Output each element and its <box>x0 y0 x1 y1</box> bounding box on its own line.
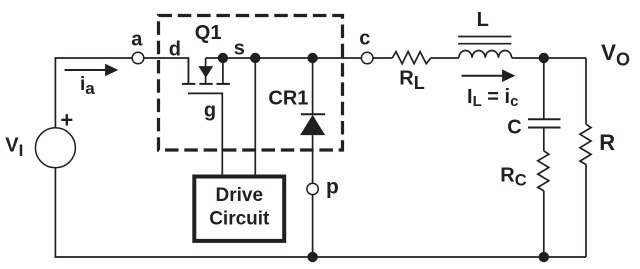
svg-text:CR1: CR1 <box>268 88 308 110</box>
svg-text:RL: RL <box>399 68 424 94</box>
svg-text:VI: VI <box>5 135 23 161</box>
transistor Q1 <box>182 58 230 175</box>
junction dot p rail <box>307 252 317 262</box>
drive circuit block <box>194 177 284 241</box>
svg-text:C: C <box>507 117 521 139</box>
svg-text:a: a <box>131 29 143 51</box>
diode CR1 <box>300 58 325 184</box>
svg-text:c: c <box>359 27 370 49</box>
svg-text:VO: VO <box>601 40 630 70</box>
wire node a to drain corner <box>144 58 188 83</box>
resistor R <box>580 124 591 257</box>
node c <box>361 52 373 64</box>
inductor L <box>458 37 511 58</box>
resistor RC <box>538 151 549 257</box>
svg-text:R: R <box>599 130 615 155</box>
wire node p to bottom rail <box>312 194 314 257</box>
junction dot drive branch <box>250 53 260 63</box>
junction dot output rail <box>539 252 549 262</box>
svg-text:ia: ia <box>80 74 95 98</box>
svg-text:+: + <box>60 107 73 132</box>
wire L to VO corner <box>512 57 586 59</box>
svg-text:p: p <box>326 175 339 198</box>
wire VI bottom to rail <box>54 168 56 257</box>
wire s node to node c <box>223 57 361 59</box>
wire VI top to node a <box>55 58 132 128</box>
wire VO corner down to R <box>585 58 587 124</box>
svg-text:Circuit: Circuit <box>209 209 270 230</box>
junction dot output top <box>539 53 549 63</box>
junction dot s <box>218 53 228 63</box>
wire RL to L <box>431 57 459 59</box>
dashed switch boundary box <box>159 16 343 151</box>
svg-text:Drive: Drive <box>216 185 264 206</box>
voltage source VI <box>35 128 75 168</box>
resistor RL <box>392 52 430 64</box>
svg-text:L: L <box>477 9 489 31</box>
wire node c to RL <box>373 57 392 59</box>
node a <box>132 52 144 64</box>
current arrow ia <box>65 64 119 77</box>
wire source to drive circuit <box>254 58 256 175</box>
svg-text:d: d <box>169 39 181 61</box>
current arrow IL <box>462 69 516 82</box>
svg-text:IL = ic: IL = ic <box>467 86 518 110</box>
capacitor C <box>528 58 561 151</box>
junction dot CR1 top <box>307 53 317 63</box>
wire bottom rail <box>55 256 587 258</box>
svg-text:g: g <box>204 100 216 122</box>
svg-text:Q1: Q1 <box>195 22 222 44</box>
svg-text:s: s <box>234 37 245 59</box>
svg-text:RC: RC <box>500 165 526 190</box>
node p <box>307 183 318 194</box>
